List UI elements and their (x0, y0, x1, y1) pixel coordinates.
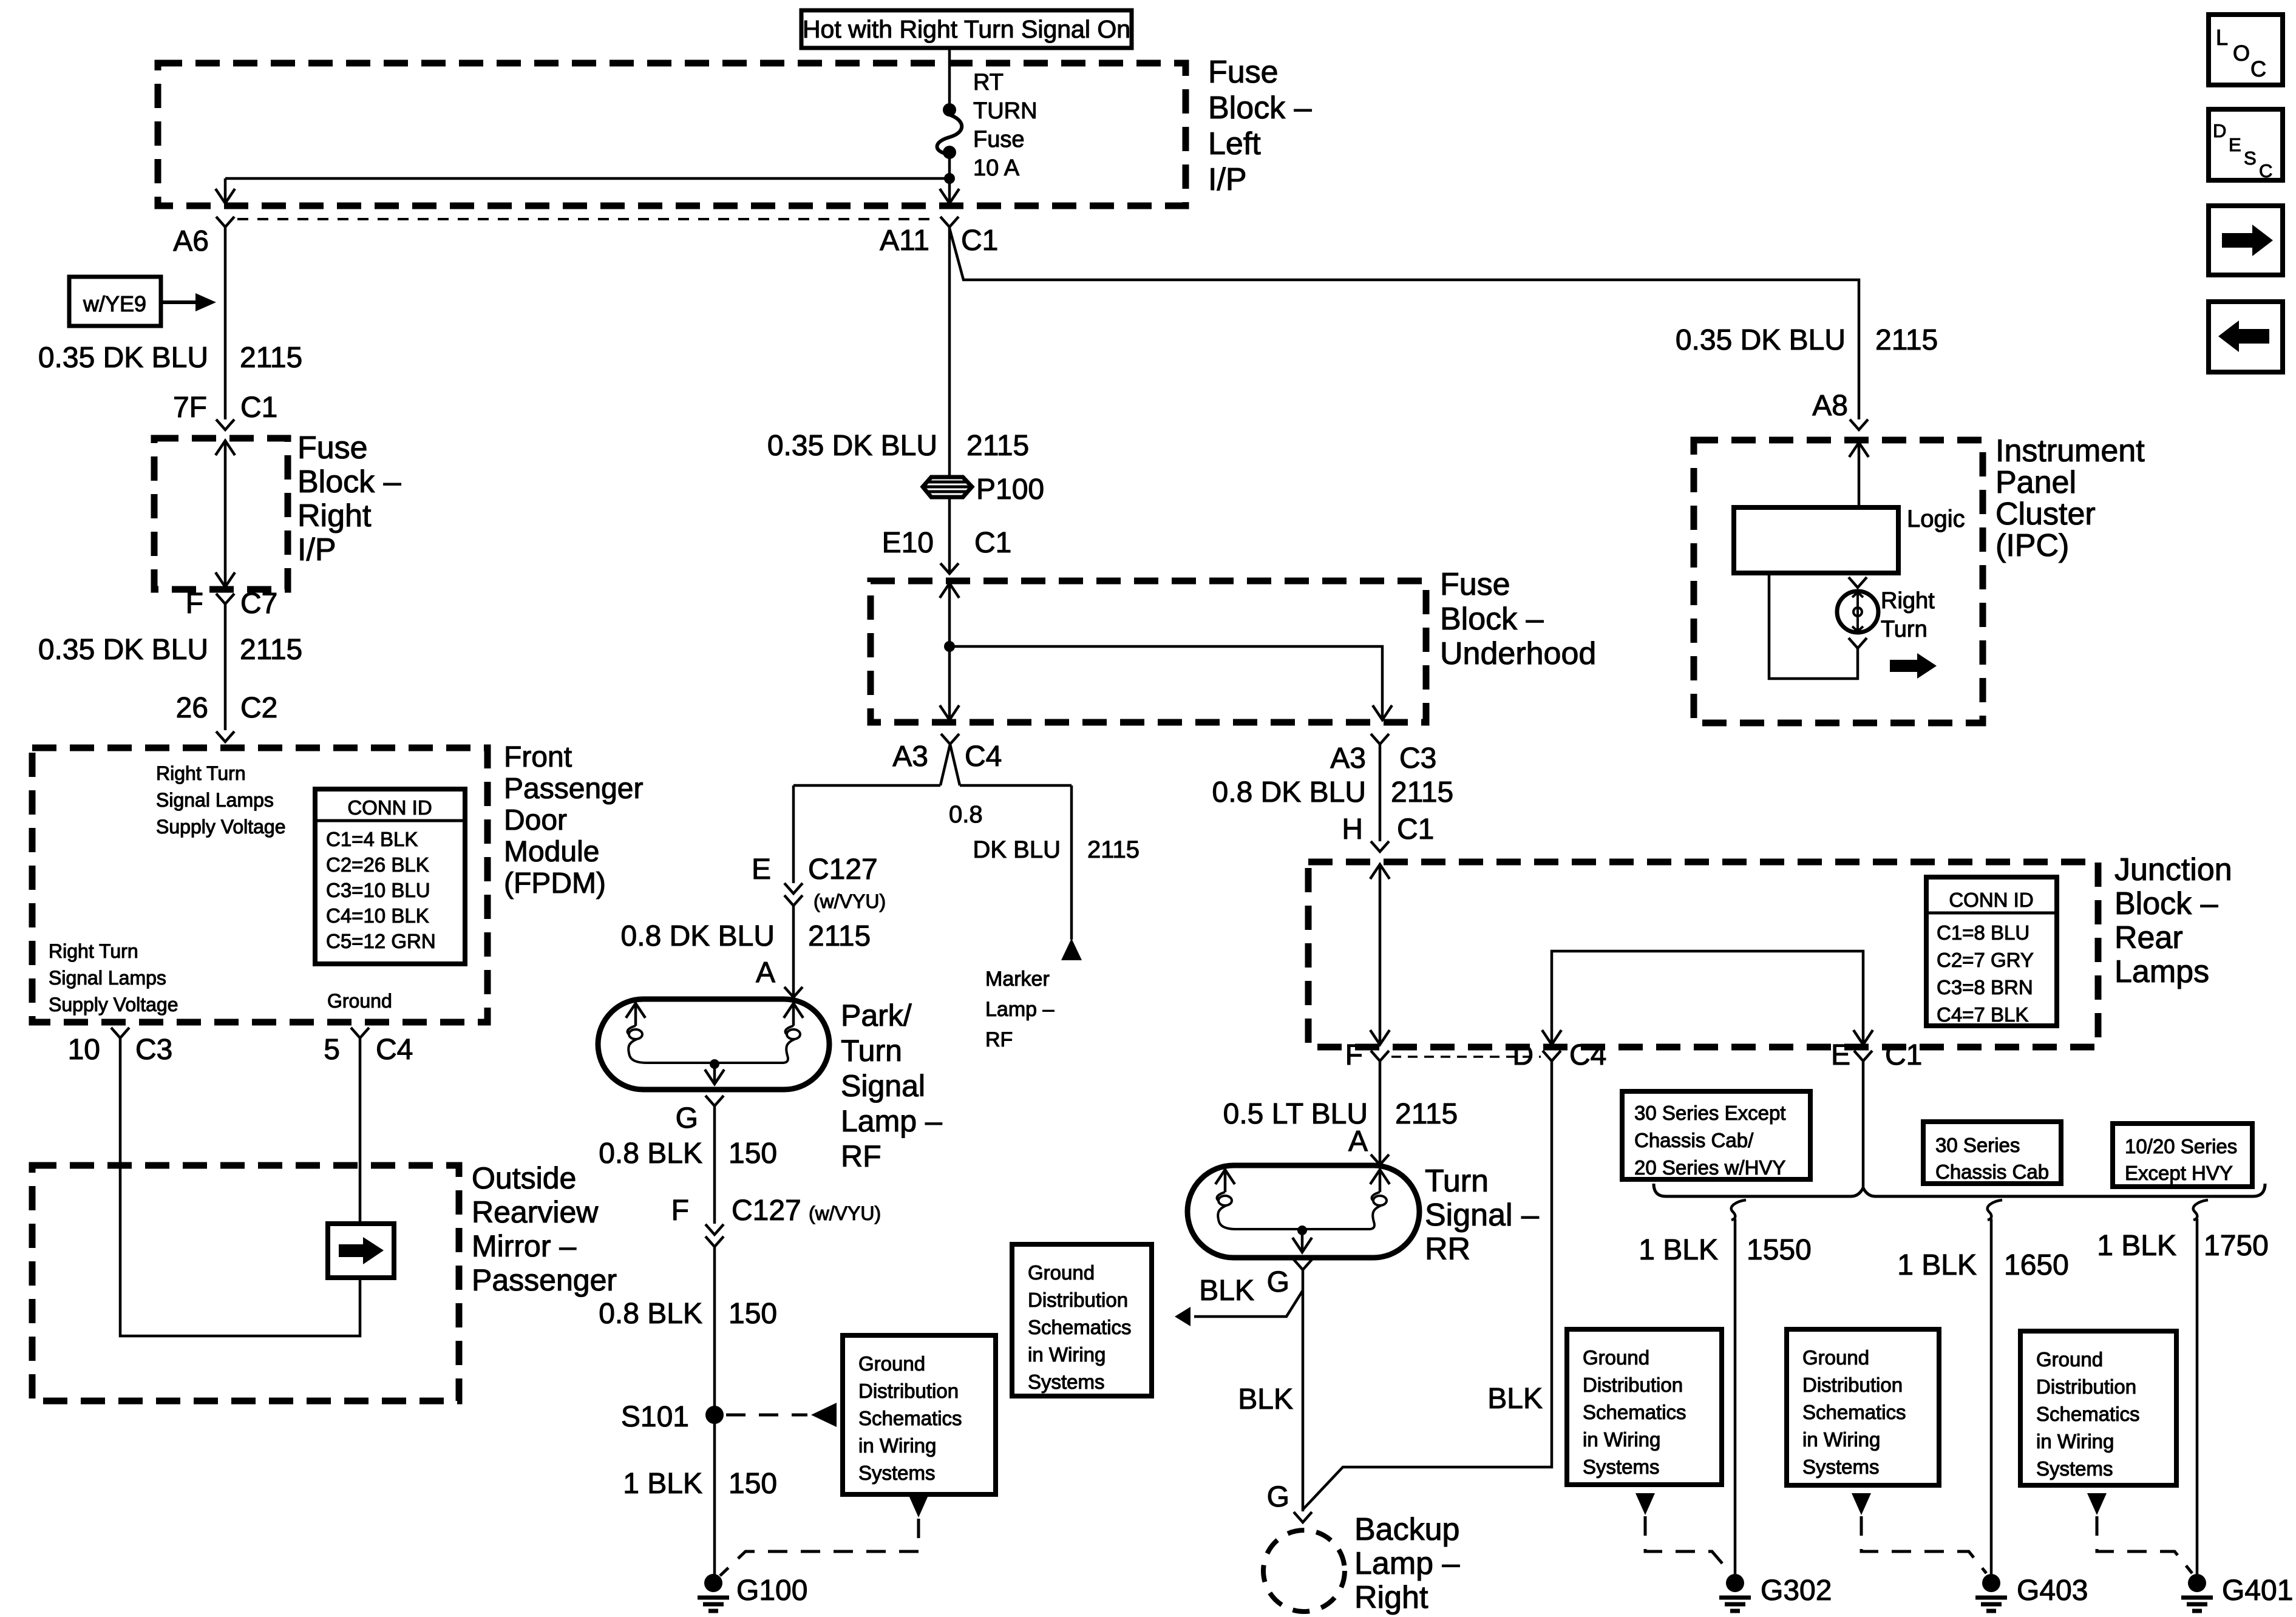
svg-text:Panel: Panel (1995, 465, 2076, 500)
svg-text:C1: C1 (240, 392, 277, 424)
arrow exit fuse-block bottom at A6 (216, 178, 235, 203)
svg-text:Distribution: Distribution (2036, 1375, 2136, 1398)
wire A3 to H (1379, 744, 1382, 841)
svg-text:Supply Voltage: Supply Voltage (49, 994, 178, 1015)
button next arrow (2209, 206, 2283, 275)
svg-text:A6: A6 (173, 225, 209, 257)
arrow w/YE9 to wire (161, 293, 216, 311)
svg-text:Rear: Rear (2114, 920, 2183, 955)
wire G to F C127 (713, 1106, 716, 1224)
svg-text:Backup: Backup (1354, 1512, 1459, 1547)
svg-text:E: E (1831, 1039, 1850, 1071)
svg-text:Right Turn: Right Turn (156, 762, 246, 784)
label Outside Rearview Mirror - Passenger (472, 1161, 617, 1297)
svg-text:(w/VYU): (w/VYU) (813, 890, 886, 912)
connector F junction (1345, 1039, 1389, 1071)
component box Junction Block - Rear Lamps (1308, 862, 2098, 1047)
svg-text:Turn: Turn (1881, 617, 1927, 642)
label Instrument Panel Cluster (IPC) (1995, 433, 2145, 563)
splice S101 (621, 1401, 724, 1433)
connector A6 (173, 217, 234, 257)
reference box Ground Distribution Schematics (G403) (1787, 1329, 1939, 1485)
indicator lamp Right Turn (1837, 588, 1935, 642)
svg-text:G: G (1267, 1266, 1289, 1298)
svg-text:Park/: Park/ (841, 998, 912, 1032)
series option box 30 Series Except (1622, 1091, 1810, 1179)
wire label 0.35 DK BLU 2115 (IPC) (1676, 324, 1938, 356)
wire label BLK (turn lamp ground) (1199, 1275, 1254, 1307)
svg-text:Turn: Turn (1425, 1164, 1489, 1199)
connector 5 C4 (324, 1028, 413, 1066)
wire marker branch (1070, 785, 1073, 940)
svg-text:in Wiring: in Wiring (1028, 1343, 1106, 1366)
svg-text:BLK: BLK (1238, 1383, 1293, 1415)
svg-text:0.8 BLK: 0.8 BLK (599, 1137, 702, 1170)
svg-text:0.5 LT BLU: 0.5 LT BLU (1223, 1098, 1368, 1130)
ground G401 (2181, 1574, 2293, 1611)
svg-text:in Wiring: in Wiring (2036, 1430, 2114, 1453)
internal wire indicator return (1769, 573, 1858, 679)
connector below indicator (1849, 638, 1867, 648)
wire label 0.8 DK BLU 2115 (marker) (949, 801, 1140, 863)
svg-text:Right: Right (297, 498, 372, 534)
button LOC (2209, 15, 2283, 85)
svg-text:Instrument: Instrument (1995, 433, 2145, 469)
svg-text:C4: C4 (1569, 1039, 1606, 1071)
svg-text:(w/VYU): (w/VYU) (809, 1202, 881, 1224)
svg-text:Module: Module (504, 836, 599, 868)
svg-text:C: C (2259, 160, 2272, 181)
thin dashed connector line F-D (1391, 1056, 1541, 1058)
wire label 0.35 DK BLU 2115 (A11-P100) (767, 430, 1029, 462)
svg-text:Ground: Ground (2036, 1348, 2103, 1371)
wire label 1 BLK 1750 (2097, 1230, 2269, 1262)
svg-text:RF: RF (841, 1139, 881, 1173)
svg-text:Right: Right (1354, 1580, 1428, 1615)
wire label 0.8 BLK 150 (to S101) (599, 1298, 777, 1330)
svg-text:30 Series: 30 Series (1935, 1134, 2020, 1156)
svg-text:A8: A8 (1812, 390, 1848, 422)
svg-text:C3=10 BLU: C3=10 BLU (326, 879, 430, 901)
svg-text:Left: Left (1208, 126, 1261, 161)
internal wire junction D-E bus (1542, 951, 1873, 1045)
arrow exit fuse-block bottom at A11 (940, 189, 959, 203)
component box Fuse Block - Underhood (871, 581, 1426, 722)
wire label 1 BLK 1550 (1639, 1234, 1812, 1266)
component box Instrument Panel Cluster (1694, 440, 1983, 723)
internal wire IPC to logic (1849, 442, 1869, 507)
svg-text:20 Series w/HVY: 20 Series w/HVY (1634, 1156, 1785, 1179)
svg-text:C1: C1 (1885, 1039, 1922, 1071)
svg-text:Underhood: Underhood (1440, 636, 1596, 671)
svg-text:BLK: BLK (1487, 1383, 1543, 1415)
svg-text:BLK: BLK (1199, 1275, 1254, 1307)
svg-text:5: 5 (324, 1034, 340, 1066)
label Fuse Block - Left I/P (1208, 55, 1312, 197)
svg-text:Right: Right (1881, 588, 1935, 614)
connector E C127 (w/VYU) (752, 853, 886, 912)
svg-text:Systems: Systems (2036, 1457, 2113, 1480)
wire branch A11 to IPC (949, 228, 1859, 419)
svg-text:Lamp –: Lamp – (1354, 1546, 1460, 1581)
wire Y-split below A3 C4 (793, 744, 1072, 785)
svg-text:RT: RT (973, 70, 1004, 95)
wire S101 to G100 (713, 1415, 716, 1575)
svg-text:Distribution: Distribution (858, 1380, 959, 1402)
wire label 1 BLK 150 (623, 1468, 777, 1500)
svg-text:Block –: Block – (1208, 90, 1312, 126)
connector G park lamp (676, 1096, 724, 1134)
svg-text:E: E (752, 853, 771, 886)
svg-text:7F: 7F (173, 392, 207, 424)
wire G down to backup lamp (1302, 1270, 1305, 1511)
wire F C127 to S101 (713, 1247, 716, 1415)
lamp Turn Signal - RR (1187, 1165, 1419, 1258)
dashed reference S101 to ground box (726, 1403, 837, 1427)
svg-text:A: A (756, 957, 775, 989)
svg-text:0.8 DK BLU: 0.8 DK BLU (621, 920, 775, 952)
button DESC (2209, 109, 2283, 181)
svg-text:F: F (671, 1195, 689, 1227)
svg-text:1750: 1750 (2204, 1230, 2269, 1262)
reference box Ground Distribution Schematics (S101) (843, 1335, 996, 1494)
svg-text:Lamp –: Lamp – (985, 998, 1054, 1021)
connector E C1 (1831, 1039, 1922, 1071)
connector 10 C3 (68, 1028, 173, 1066)
connector G turn lamp (1267, 1259, 1312, 1298)
wire F to turn lamp (1379, 1061, 1382, 1165)
connector 7F C1 (173, 392, 277, 430)
svg-text:0.35 DK BLU: 0.35 DK BLU (38, 634, 208, 666)
wire fuse branch left to A6 (225, 177, 949, 180)
svg-text:F: F (1345, 1039, 1363, 1071)
FPDM pin label Ground (327, 990, 392, 1012)
wire label BLK (D) (1487, 1383, 1543, 1415)
svg-text:C: C (2250, 56, 2266, 81)
svg-text:Turn: Turn (841, 1034, 902, 1068)
wire A11 to P100 (948, 227, 951, 477)
wire label BLK (backup) (1238, 1383, 1293, 1415)
svg-text:G302: G302 (1761, 1575, 1832, 1607)
svg-text:P100: P100 (976, 473, 1044, 506)
wire F to 26 (224, 604, 227, 730)
svg-text:Distribution: Distribution (1028, 1289, 1128, 1311)
reference box Ground Distribution Schematics (G302) (1567, 1329, 1722, 1485)
logic box (1734, 506, 1965, 573)
svg-text:A3: A3 (892, 741, 928, 773)
ground G302 (1719, 1574, 1832, 1611)
svg-text:Outside: Outside (472, 1161, 576, 1195)
svg-text:Signal: Signal (841, 1069, 925, 1103)
label Fuse Block - Underhood (1440, 567, 1596, 671)
svg-text:C3=8 BRN: C3=8 BRN (1937, 976, 2033, 998)
svg-text:1 BLK: 1 BLK (623, 1468, 702, 1500)
svg-text:150: 150 (729, 1298, 777, 1330)
svg-text:1 BLK: 1 BLK (1897, 1249, 1977, 1281)
svg-text:C4: C4 (376, 1034, 413, 1066)
connector A8 (1812, 390, 1868, 430)
svg-text:Right Turn: Right Turn (49, 940, 138, 962)
svg-text:Ground: Ground (327, 990, 392, 1012)
wire label 1 BLK 1650 (1897, 1249, 2069, 1281)
connector 26 C2 (176, 692, 278, 742)
grommet P100 (923, 473, 1044, 506)
wire G to ground reference (1194, 1290, 1303, 1317)
triangle pointer G401 (2087, 1493, 2107, 1515)
svg-text:C1: C1 (974, 527, 1011, 559)
svg-text:C1: C1 (961, 225, 998, 257)
svg-text:C3: C3 (135, 1034, 172, 1066)
wire E C127 to lamp A (792, 906, 795, 999)
label Front Passenger Door Module (FPDM) (504, 741, 643, 900)
label Fuse Block - Right I/P (297, 430, 401, 568)
wire from hot node to fuse (948, 48, 951, 104)
dashed reference to G401 (2097, 1516, 2192, 1573)
svg-text:Chassis Cab: Chassis Cab (1935, 1161, 2049, 1183)
svg-text:H: H (1342, 813, 1363, 846)
wire label 0.8 DK BLU 2115 (H) (1212, 776, 1454, 808)
svg-text:C127: C127 (732, 1195, 801, 1227)
svg-text:C4: C4 (965, 741, 1002, 773)
right-turn solid arrow IPC (1890, 653, 1937, 679)
reference box Ground Distribution Schematics (RR) (1012, 1244, 1152, 1396)
svg-text:0.35 DK BLU: 0.35 DK BLU (1676, 324, 1846, 356)
svg-text:D: D (1512, 1039, 1533, 1071)
connector below logic (1849, 577, 1867, 588)
connector F C7 (186, 588, 278, 620)
svg-text:(FPDM): (FPDM) (504, 867, 606, 900)
svg-text:G403: G403 (2017, 1575, 2088, 1607)
svg-text:10/20 Series: 10/20 Series (2125, 1135, 2237, 1158)
node label: Hot with Right Turn Signal On (801, 10, 1132, 48)
svg-text:C3: C3 (1399, 742, 1436, 775)
svg-text:G100: G100 (736, 1575, 807, 1607)
connector A11 C1 (880, 217, 998, 257)
ground G403 (1975, 1574, 2088, 1611)
svg-text:26: 26 (176, 692, 208, 724)
svg-text:F: F (186, 588, 203, 620)
component box Fuse Block - Left I/P (158, 63, 1186, 206)
svg-text:2115: 2115 (240, 634, 302, 666)
FPDM pin label Right Turn Signal Lamps Supply Voltage (top) (156, 762, 286, 838)
svg-text:10: 10 (68, 1034, 100, 1066)
svg-text:Schematics: Schematics (1583, 1401, 1686, 1423)
wire 10/C3 down-right loop to mirror (120, 1038, 360, 1336)
internal wire junction F (1370, 864, 1390, 1045)
svg-text:G: G (676, 1102, 698, 1134)
svg-text:Chassis Cab/: Chassis Cab/ (1634, 1129, 1754, 1151)
wire 5/C4 down to mirror arrow (359, 1038, 362, 1224)
triangle pointer G403 (1852, 1493, 1871, 1515)
svg-text:I/P: I/P (1208, 162, 1247, 197)
svg-text:C2=7 GRY: C2=7 GRY (1937, 949, 2034, 971)
svg-text:C127: C127 (808, 853, 878, 886)
svg-text:Distribution: Distribution (1802, 1374, 1903, 1396)
svg-text:Supply Voltage: Supply Voltage (156, 816, 286, 838)
svg-text:2115: 2115 (240, 342, 302, 374)
svg-text:Fuse: Fuse (973, 127, 1024, 152)
svg-text:150: 150 (729, 1468, 777, 1500)
svg-text:2115: 2115 (966, 430, 1029, 462)
svg-text:A3: A3 (1330, 742, 1366, 775)
connector D C4 (1512, 1039, 1606, 1071)
svg-text:TURN: TURN (973, 98, 1038, 124)
svg-text:1 BLK: 1 BLK (1639, 1234, 1718, 1266)
svg-text:Systems: Systems (1583, 1456, 1660, 1478)
component box Outside Rearview Mirror - Passenger (32, 1165, 459, 1401)
label Junction Block - Rear Lamps (2114, 852, 2232, 989)
svg-text:C4=7 BLK: C4=7 BLK (1937, 1003, 2028, 1026)
svg-text:0.35 DK BLU: 0.35 DK BLU (767, 430, 937, 462)
svg-text:Schematics: Schematics (2036, 1403, 2140, 1425)
svg-text:RR: RR (1425, 1232, 1470, 1267)
connector F C127 (w/VYU) lower (671, 1195, 881, 1247)
svg-text:E: E (2229, 134, 2241, 155)
svg-text:S: S (2244, 147, 2257, 169)
wire label 0.8 BLK 150 (G-F) (599, 1137, 777, 1170)
svg-text:1550: 1550 (1747, 1234, 1812, 1266)
svg-text:C2: C2 (240, 692, 277, 724)
lamp Backup Lamp - Right (1263, 1530, 1345, 1612)
svg-text:DK BLU: DK BLU (973, 836, 1061, 863)
svg-text:2115: 2115 (1391, 776, 1453, 808)
svg-text:0.8 BLK: 0.8 BLK (599, 1298, 702, 1330)
connector A3 C3 (1330, 734, 1436, 775)
svg-text:Door: Door (504, 804, 567, 836)
svg-text:Systems: Systems (858, 1462, 936, 1484)
svg-text:Passenger: Passenger (472, 1263, 617, 1297)
svg-text:C1=4 BLK: C1=4 BLK (326, 828, 418, 850)
svg-text:D: D (2213, 120, 2226, 141)
svg-text:C7: C7 (240, 588, 277, 620)
svg-text:Schematics: Schematics (1802, 1401, 1906, 1423)
label Park/Turn Signal Lamp - RF (841, 998, 942, 1173)
svg-text:1 BLK: 1 BLK (2097, 1230, 2176, 1262)
wire label 0.8 DK BLU 2115 (621, 920, 871, 952)
wire label 0.35 DK BLU 2115 (F-26) (38, 634, 302, 666)
component box Fuse Block - Right I/P (154, 438, 288, 589)
svg-text:1650: 1650 (2004, 1249, 2069, 1281)
svg-text:Schematics: Schematics (1028, 1316, 1132, 1338)
connector A turn lamp (1348, 1125, 1389, 1165)
svg-text:S101: S101 (621, 1401, 689, 1433)
svg-text:O: O (2233, 41, 2250, 66)
svg-text:w/YE9: w/YE9 (83, 291, 146, 316)
dashed reference to G100 (720, 1519, 919, 1576)
svg-text:150: 150 (729, 1137, 777, 1170)
svg-text:A: A (1348, 1125, 1368, 1158)
svg-text:Fuse: Fuse (297, 430, 368, 466)
svg-text:Fuse: Fuse (1440, 567, 1510, 602)
svg-text:L: L (2216, 25, 2228, 50)
component box FPDM (32, 748, 487, 1022)
internal wire underhood branch right (949, 646, 1392, 720)
svg-text:Signal Lamps: Signal Lamps (49, 967, 166, 989)
svg-text:Cluster: Cluster (1995, 497, 2096, 532)
svg-text:2115: 2115 (1875, 324, 1938, 356)
svg-text:30 Series Except: 30 Series Except (1634, 1102, 1785, 1124)
junction CONN ID table (1926, 877, 2057, 1026)
svg-text:Lamp –: Lamp – (841, 1104, 942, 1138)
svg-text:in Wiring: in Wiring (1802, 1428, 1880, 1451)
svg-text:0.8: 0.8 (949, 801, 983, 828)
svg-text:C2=26 BLK: C2=26 BLK (326, 853, 429, 876)
svg-text:I/P: I/P (297, 532, 336, 568)
svg-text:C4=10 BLK: C4=10 BLK (326, 904, 429, 927)
wire label 0.5 LT BLU 2115 (1223, 1098, 1458, 1130)
svg-text:Hot with Right Turn Signal On: Hot with Right Turn Signal On (803, 15, 1130, 43)
triangle pointer below S101 box (909, 1496, 928, 1517)
svg-text:Except HVY: Except HVY (2125, 1162, 2233, 1184)
mirror turn indicator arrow box (328, 1224, 394, 1278)
svg-text:10 A: 10 A (973, 155, 1020, 181)
svg-text:Signal Lamps: Signal Lamps (156, 789, 274, 811)
button prev arrow (2209, 302, 2283, 372)
bracket over ground wires (1654, 1184, 2265, 1196)
tag box w/YE9 (69, 277, 161, 326)
svg-text:G401: G401 (2222, 1575, 2293, 1607)
svg-text:Systems: Systems (1028, 1371, 1105, 1393)
svg-text:0.35 DK BLU: 0.35 DK BLU (38, 342, 208, 374)
svg-text:CONN ID: CONN ID (1949, 889, 2033, 911)
svg-text:RF: RF (985, 1028, 1013, 1051)
reference box Ground Distribution Schematics (G401) (2020, 1331, 2176, 1485)
svg-text:Rearview: Rearview (472, 1195, 599, 1229)
wire below fuse with junction (944, 152, 955, 201)
svg-text:(IPC): (IPC) (1995, 528, 2069, 563)
fuse F RT TURN 10A (937, 103, 962, 159)
connector A3 C4 (892, 734, 1002, 773)
svg-text:2115: 2115 (1395, 1098, 1458, 1130)
svg-text:Marker: Marker (985, 968, 1050, 991)
svg-text:E10: E10 (882, 527, 934, 559)
svg-text:Block –: Block – (1440, 602, 1544, 637)
svg-text:G: G (1267, 1481, 1289, 1513)
connector E10 C1 (882, 527, 1012, 574)
svg-text:2115: 2115 (1087, 836, 1140, 863)
dashed reference to G403 (1861, 1516, 1986, 1573)
series option box 30 Series Chassis Cab (1923, 1122, 2061, 1184)
svg-text:Front: Front (504, 741, 572, 773)
ground G100 (698, 1574, 807, 1611)
svg-text:Ground: Ground (1802, 1346, 1869, 1369)
svg-text:0.8 DK BLU: 0.8 DK BLU (1212, 776, 1366, 808)
svg-text:Ground: Ground (1583, 1346, 1649, 1369)
triangle pointer G302 (1635, 1493, 1655, 1515)
svg-text:2115: 2115 (808, 920, 871, 952)
svg-text:Ground: Ground (858, 1352, 925, 1375)
internal wire Fuse Block Right I/P (216, 441, 235, 587)
ground wire G302 (1731, 1200, 1746, 1574)
lamp Park/Turn Signal Lamp - RF (598, 999, 829, 1090)
thin dashed connector line A6-A11 (237, 218, 937, 220)
FPDM CONN ID table (315, 789, 465, 964)
svg-text:Passenger: Passenger (504, 773, 643, 805)
svg-text:Distribution: Distribution (1583, 1374, 1683, 1396)
svg-text:in Wiring: in Wiring (858, 1434, 936, 1457)
wire D to backup lamp (1303, 1061, 1552, 1510)
connector A park lamp (756, 957, 803, 997)
svg-text:Systems: Systems (1802, 1456, 1880, 1478)
svg-text:Schematics: Schematics (858, 1407, 962, 1429)
triangle pointer to ground box (1175, 1307, 1190, 1326)
internal wire underhood left (940, 583, 959, 720)
wire left branch to E C127 (792, 785, 795, 883)
wire E to bracket (1862, 1061, 1865, 1188)
series option box 10/20 Series (2113, 1124, 2252, 1187)
label Turn Signal - RR (1425, 1164, 1539, 1267)
FPDM pin label Right Turn Signal Lamps Supply Voltage (bottom) (49, 940, 178, 1015)
